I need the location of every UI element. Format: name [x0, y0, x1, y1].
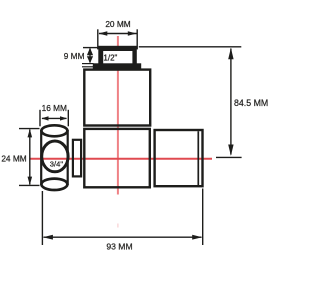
dimension 93 MM [42, 189, 202, 246]
right port inner edge line [197, 131, 199, 185]
horizontal centerline (red) [30, 158, 212, 160]
svg-text:84.5 MM: 84.5 MM [234, 98, 268, 108]
dimension 16 MM [40, 110, 68, 127]
svg-text:24 MM: 24 MM [1, 154, 26, 164]
upper valve body [84, 70, 150, 126]
cap flange bar [93, 63, 141, 70]
cap 1/2 inch port body [98, 46, 137, 66]
dimension 9 MM [83, 48, 98, 63]
svg-text:9 MM: 9 MM [64, 51, 85, 61]
svg-text:3/4": 3/4" [50, 160, 64, 169]
dimension 24 MM [19, 129, 40, 186]
oval flange side walls [41, 130, 67, 185]
dimension 84.5 MM [139, 47, 242, 158]
oval flange top ellipse [41, 125, 67, 136]
svg-text:93 MM: 93 MM [106, 241, 132, 251]
svg-text:20 MM: 20 MM [105, 19, 130, 29]
right port body [155, 130, 203, 186]
centerline dash below [117, 224, 119, 228]
connector neck [73, 140, 81, 177]
oval flange middle ellipse 3/4 face [42, 141, 68, 172]
dimension 20 MM [98, 29, 137, 49]
vertical centerline (red) [117, 36, 119, 195]
flange left tick lines [82, 64, 94, 67]
lower valve body [84, 129, 150, 187]
svg-text:1/2": 1/2" [103, 53, 117, 62]
svg-text:16 MM: 16 MM [42, 103, 67, 113]
oval flange bottom ellipse [41, 179, 67, 190]
